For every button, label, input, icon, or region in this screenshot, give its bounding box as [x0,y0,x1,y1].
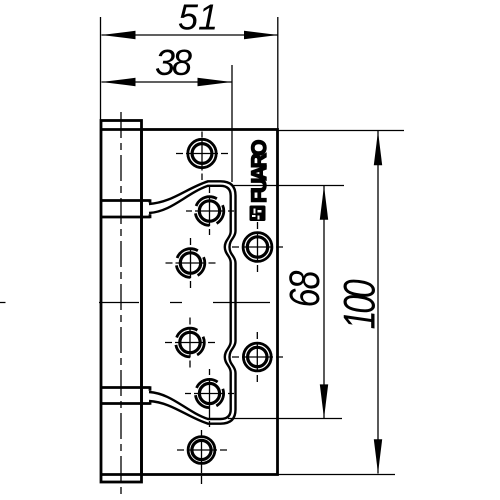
extension line y=185.5 for 68 [233,185,344,187]
plate bottom edge across barrel [100,473,141,476]
screw hole H7 (in contour) [185,369,234,429]
svg-text:68: 68 [281,270,328,307]
FUARO logo icon [250,206,266,222]
dimension line 51 [102,34,279,36]
screw hole H8 bottom [177,430,227,488]
extension line y=130.5 for 100 [278,130,405,132]
svg-text:51: 51 [178,0,218,38]
dimension line 100 vertical [377,131,379,474]
extension line left x=100.5 [100,17,102,120]
screw hole H3 (in contour) [166,238,216,288]
lower knuckle gap band [101,386,151,404]
arrow 100 up [374,131,382,165]
extension line y=474.5 for 100 [278,474,396,476]
screw hole H1 top [176,132,228,181]
dimension line 38 [102,81,232,83]
extension line x=232 for 38 [231,65,233,182]
screw hole H5 (in contour) [165,318,215,368]
plate top edge across barrel [100,128,141,131]
screw hole H4 right [232,222,283,272]
screw hole H2 (in contour) [186,187,234,235]
svg-text:FUARO: FUARO [248,140,271,203]
arrow 100 down [374,439,382,473]
svg-text:100: 100 [335,279,384,329]
arrow 68 down [320,384,328,418]
arrow 51 left [102,31,136,39]
upper knuckle gap band [101,199,151,218]
arrow 38 left [102,78,136,86]
barrel vertical center line [120,112,122,496]
arrow 68 up [320,186,328,220]
hinge barrel (knuckle cylinder) [101,121,142,483]
extension line y=418.5 for 68 [228,418,342,420]
hinge leaf plate [142,130,278,475]
arrow 51 right [244,31,278,39]
horizontal center line of hinge [0,302,270,304]
arrow 38 right [198,78,232,86]
inner stamped contour (double-line slot) [149,181,236,423]
dimension line 68 vertical [323,186,325,419]
extension line right x=277.8 [277,17,279,129]
screw hole H6 right [232,332,283,382]
svg-text:38: 38 [155,42,192,83]
